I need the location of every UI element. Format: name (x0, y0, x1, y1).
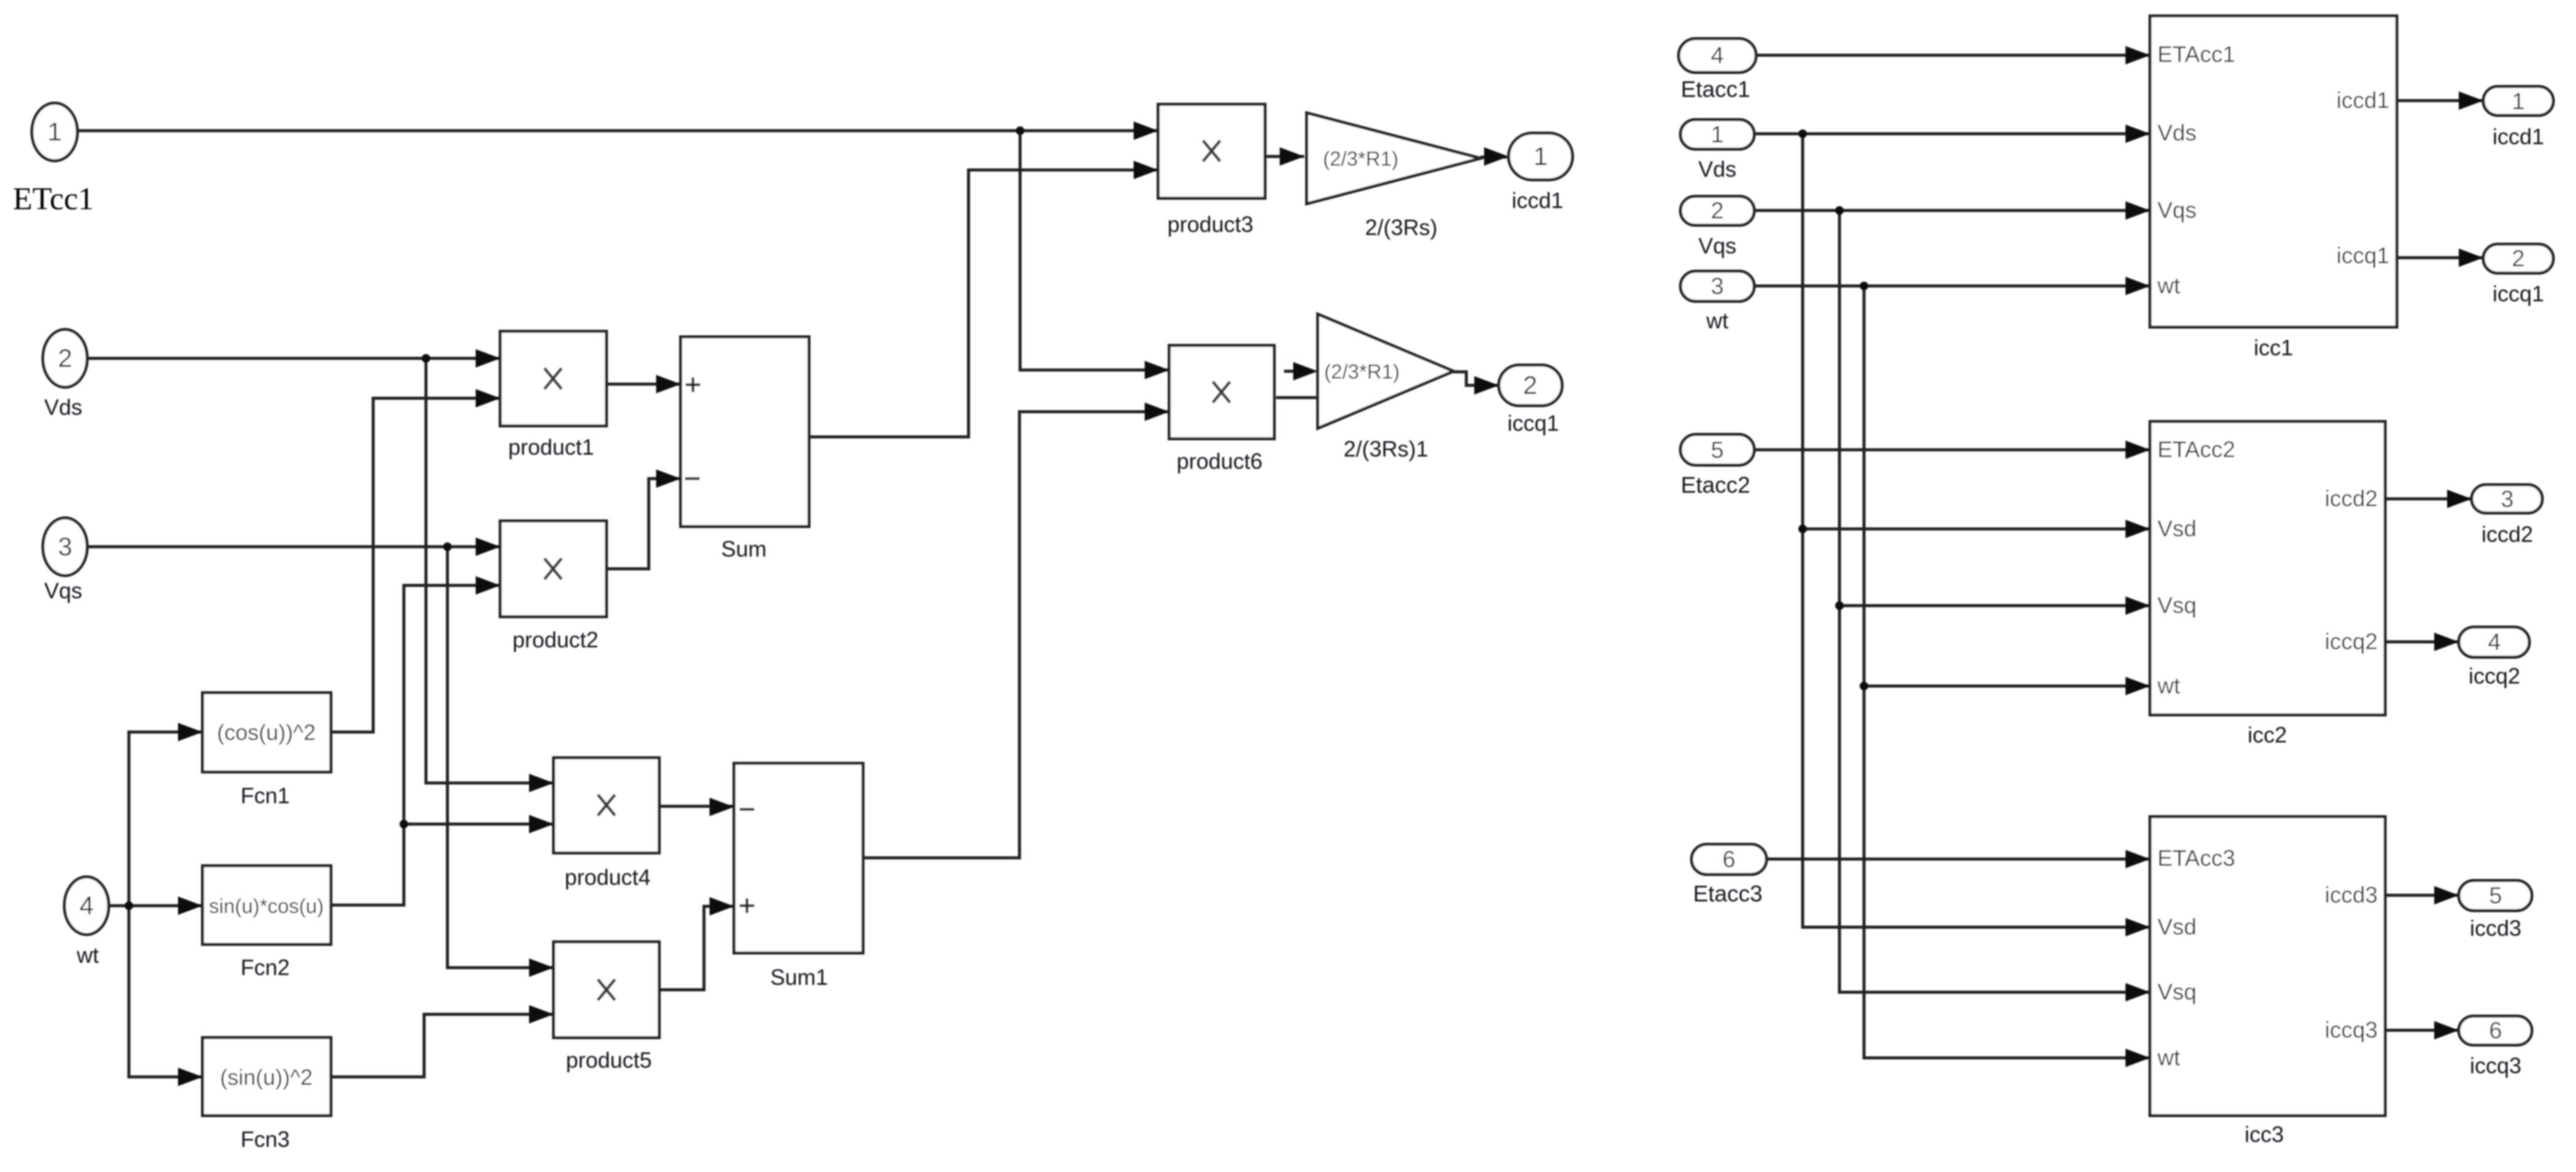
svg-text:Vsd: Vsd (2157, 516, 2197, 541)
svg-text:5: 5 (1711, 438, 1723, 463)
svg-text:1: 1 (1533, 142, 1547, 171)
svg-text:Vqs: Vqs (1698, 233, 1736, 258)
svg-text:icc1: icc1 (2254, 335, 2293, 360)
svg-text:iccd1: iccd1 (2493, 124, 2544, 149)
svg-text:wt: wt (76, 943, 99, 968)
svg-text:4: 4 (79, 891, 93, 920)
svg-text:Fcn3: Fcn3 (241, 1127, 290, 1152)
svg-text:iccd2: iccd2 (2325, 486, 2378, 511)
svg-text:2: 2 (58, 344, 72, 372)
svg-text:iccd2: iccd2 (2481, 522, 2533, 547)
svg-text:ETAcc2: ETAcc2 (2157, 437, 2235, 462)
svg-text:sin(u)*cos(u): sin(u)*cos(u) (209, 895, 323, 917)
svg-text:(2/3*R1): (2/3*R1) (1325, 360, 1400, 383)
svg-text:2: 2 (1523, 371, 1537, 399)
svg-text:iccq1: iccq1 (1507, 411, 1559, 436)
svg-text:1: 1 (47, 117, 61, 146)
svg-text:wt: wt (2157, 273, 2181, 298)
svg-text:(sin(u))^2: (sin(u))^2 (220, 1065, 313, 1090)
svg-text:wt: wt (2157, 673, 2181, 698)
svg-text:Vds: Vds (2157, 120, 2197, 145)
svg-text:2: 2 (1711, 198, 1723, 224)
svg-text:icc2: icc2 (2248, 722, 2287, 747)
svg-text:iccd3: iccd3 (2325, 882, 2378, 908)
svg-text:iccd1: iccd1 (1512, 188, 1563, 213)
svg-text:2: 2 (2512, 246, 2524, 272)
svg-text:Vds: Vds (1698, 156, 1736, 182)
svg-text:Vds: Vds (44, 395, 82, 420)
svg-text:product5: product5 (566, 1047, 652, 1073)
svg-text:iccq3: iccq3 (2325, 1017, 2378, 1043)
svg-text:Vsq: Vsq (2157, 593, 2197, 618)
svg-text:2/(3Rs): 2/(3Rs) (1365, 215, 1437, 240)
svg-text:6: 6 (2489, 1018, 2502, 1044)
svg-text:product1: product1 (508, 434, 594, 460)
svg-text:iccq2: iccq2 (2325, 629, 2378, 654)
svg-text:1: 1 (2512, 89, 2524, 115)
svg-text:3: 3 (58, 532, 72, 561)
svg-text:wt: wt (1706, 308, 1728, 333)
svg-text:Etacc2: Etacc2 (1681, 472, 1750, 498)
svg-text:6: 6 (1722, 847, 1735, 873)
svg-text:4: 4 (1711, 43, 1723, 69)
svg-text:4: 4 (2488, 630, 2501, 655)
svg-text:Vsq: Vsq (2157, 979, 2197, 1004)
svg-text:(cos(u))^2: (cos(u))^2 (217, 720, 316, 745)
svg-text:Vqs: Vqs (44, 578, 82, 603)
svg-text:Vsd: Vsd (2157, 914, 2197, 939)
svg-text:iccq2: iccq2 (2469, 663, 2520, 688)
svg-text:(2/3*R1): (2/3*R1) (1323, 147, 1399, 170)
svg-text:Sum: Sum (721, 536, 767, 561)
svg-text:product2: product2 (512, 627, 598, 652)
svg-text:ETAcc1: ETAcc1 (2157, 42, 2235, 67)
svg-text:3: 3 (2501, 487, 2513, 512)
svg-text:Sum1: Sum1 (770, 965, 828, 990)
svg-text:ETcc1: ETcc1 (13, 182, 94, 217)
svg-text:Vqs: Vqs (2157, 198, 2197, 223)
svg-text:iccq1: iccq1 (2337, 243, 2389, 268)
svg-text:wt: wt (2157, 1045, 2181, 1070)
svg-text:product4: product4 (565, 865, 651, 890)
svg-text:Etacc1: Etacc1 (1681, 77, 1750, 102)
svg-text:Fcn1: Fcn1 (241, 783, 290, 808)
svg-text:iccq1: iccq1 (2493, 281, 2544, 306)
svg-text:iccq3: iccq3 (2470, 1053, 2521, 1078)
svg-text:product6: product6 (1177, 449, 1263, 474)
svg-text:ETAcc3: ETAcc3 (2157, 846, 2235, 871)
svg-text:1: 1 (1711, 122, 1723, 148)
svg-text:Fcn2: Fcn2 (241, 955, 290, 980)
svg-text:5: 5 (2489, 883, 2502, 909)
svg-text:iccd3: iccd3 (2470, 916, 2521, 941)
svg-text:icc3: icc3 (2245, 1122, 2284, 1147)
svg-text:product3: product3 (1167, 212, 1253, 237)
svg-text:Etacc3: Etacc3 (1693, 881, 1762, 906)
svg-text:iccd1: iccd1 (2337, 88, 2389, 113)
svg-text:3: 3 (1711, 274, 1723, 299)
svg-text:2/(3Rs)1: 2/(3Rs)1 (1344, 436, 1428, 461)
